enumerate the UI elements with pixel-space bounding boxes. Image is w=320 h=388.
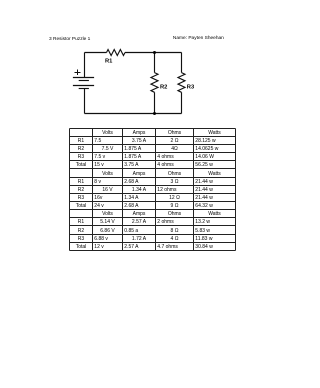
resistor R2 (vertical zigzag, middle branch) [151, 73, 158, 93]
wire: left branch, top-left corner down to battery positive plate [84, 53, 86, 78]
battery polarity + mark [75, 70, 81, 76]
wire: right branch, top-right corner down to R3 top lead [181, 53, 183, 73]
wire: top rail, top-left corner to R1 left lead [85, 52, 107, 54]
battery B1: plate 2 (short) [79, 80, 89, 82]
battery B1: plate 4 (short, negative terminal) [79, 88, 89, 90]
wire: R2 bottom lead down to node B [154, 92, 156, 113]
battery B1: plate 1 (long, positive terminal) [73, 77, 94, 79]
name field [173, 37, 224, 42]
node B (junction dot at bottom of R2 branch) [153, 112, 156, 115]
node A (junction dot at top of R2 branch) [153, 51, 156, 54]
svg-text:R3: R3 [187, 85, 195, 91]
wire: R3 bottom lead down to bottom-right corner [181, 92, 183, 113]
results table cell text [93, 131, 123, 136]
wire: node A down to R2 top lead [154, 53, 156, 73]
wire: battery negative plate down to bottom-left corner [84, 89, 86, 114]
battery B1: plate 3 (long) [73, 85, 94, 87]
wire: bottom rail [85, 113, 182, 115]
results table grid [70, 129, 236, 251]
resistor R1 (horizontal zigzag on top rail) [107, 50, 125, 56]
svg-text:R2: R2 [160, 85, 167, 91]
svg-text:R1: R1 [105, 58, 113, 64]
resistor R3 (vertical zigzag, right branch) [178, 73, 185, 93]
wire: top rail, R1 right lead to top-right corner [125, 52, 182, 54]
title: worksheet heading [49, 38, 90, 43]
